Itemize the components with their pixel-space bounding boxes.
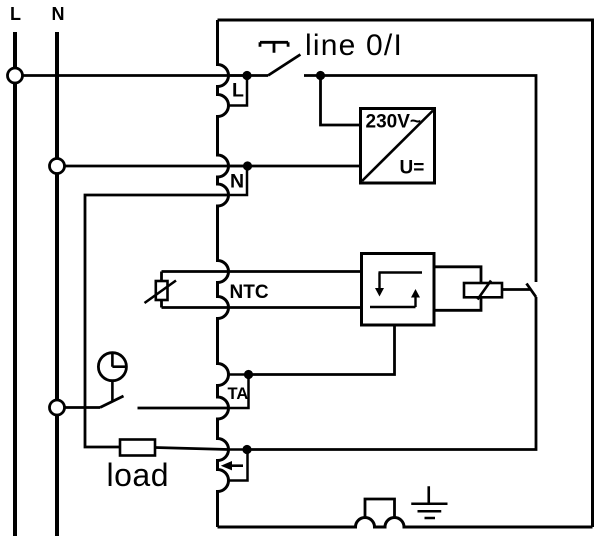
svg-text:load: load — [107, 457, 170, 493]
svg-text:L: L — [10, 4, 21, 24]
svg-text:TA: TA — [228, 385, 249, 403]
svg-text:N: N — [52, 4, 65, 24]
svg-text:NTC: NTC — [230, 282, 269, 303]
svg-text:L: L — [232, 80, 244, 102]
svg-text:N: N — [230, 171, 244, 193]
svg-text:line 0/I: line 0/I — [305, 29, 403, 62]
svg-text:U=: U= — [400, 158, 425, 179]
svg-text:230V~: 230V~ — [366, 111, 421, 132]
